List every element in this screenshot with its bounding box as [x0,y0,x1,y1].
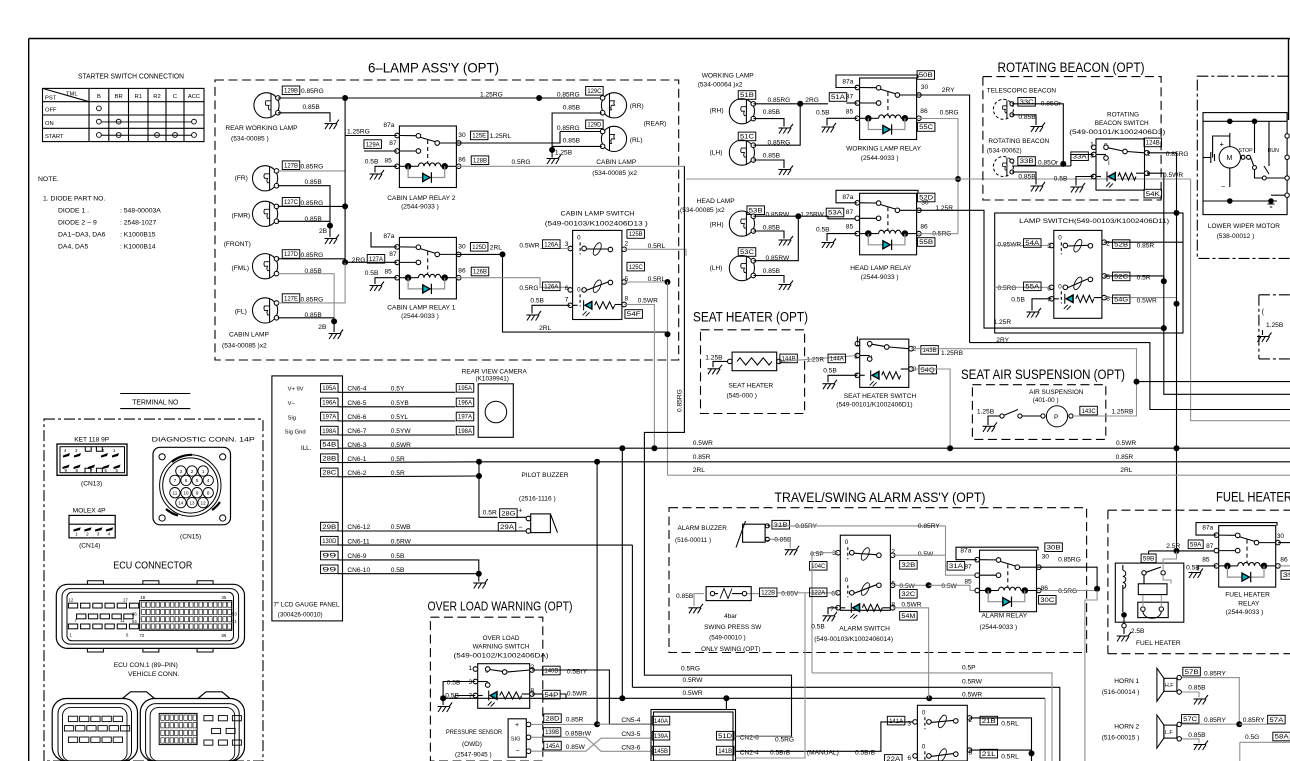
svg-text:ACC: ACC [188,94,200,100]
wire head RH 0.85B + ground [754,225,785,239]
svg-text:87a: 87a [842,194,853,201]
svg-text:57A: 57A [1269,718,1283,724]
wire fragment 1.25B [1262,330,1264,335]
label box 30C [1039,596,1057,605]
table: STARTER SWITCH CONNECTION grid [43,88,205,141]
svg-text:FUEL HEATER: FUEL HEATER [1216,490,1290,505]
svg-text:0.5B: 0.5B [811,623,825,630]
label CN2-4 0.5BrB [740,750,791,757]
svg-text:36: 36 [132,611,137,616]
horn 2 symbol [1157,715,1182,748]
svg-text:125C: 125C [629,265,644,271]
ground cabin switch [527,311,542,321]
svg-text:(2547-9045 ): (2547-9045 ) [455,752,492,759]
junction node bus 0.5WR seat [947,445,953,451]
row CN6-2 0.5R: label box 28C [321,468,339,477]
ground relay2 85 [370,170,385,180]
svg-text:87: 87 [1206,543,1214,550]
svg-text:55B: 55B [919,240,933,246]
wire 0.85RG to RR lamp [539,97,601,99]
wire 0.85B RR lamp [552,104,602,150]
svg-text:127C: 127C [284,200,299,206]
label box 54Q [919,365,937,374]
svg-text:(534-00085 )x2: (534-00085 )x2 [680,207,725,214]
svg-text:86: 86 [458,156,466,163]
label box 28D [544,714,562,723]
wire fuel relay 85 0.5B + ground [1186,565,1216,572]
junction node 2B cabin [331,318,337,324]
svg-text:0.85B: 0.85B [563,104,581,111]
svg-text:0.85B: 0.85B [303,104,321,111]
svg-text:DA4, DA5: DA4, DA5 [58,244,88,251]
label ALARM RELAY [980,612,1028,631]
svg-text:126A: 126A [544,242,558,248]
relay: ALARM RELAY [975,550,1041,612]
svg-text:54A: 54A [1025,241,1039,247]
label TERMINAL NO [120,394,190,409]
svg-text:87a: 87a [383,233,394,240]
wire gray bus y=179 [686,178,1191,180]
wire gray horiz into 2RL node [503,331,668,333]
wire horn2 0.85B + ground [1182,732,1206,743]
wire seat sw pin2 1.25RB [911,349,1136,382]
svg-text:0: 0 [922,743,926,750]
lamp switch section 2 [1058,276,1092,304]
svg-text:0.5P: 0.5P [962,664,976,671]
svg-text:(534-00085 )x2: (534-00085 )x2 [592,170,637,177]
svg-text:32C: 32C [901,592,916,598]
svg-text:2RL: 2RL [539,325,551,332]
svg-text:0.5RG: 0.5RG [681,665,700,672]
row CN6-11 0.5RW: label box 130D [321,536,339,545]
label box 128B [471,156,489,165]
svg-text:145B: 145B [654,749,668,755]
wire alarm relay 86 0.5RG [1037,588,1097,595]
lower wiper motor inner box [1203,113,1287,215]
row CN6-9 text [347,553,405,560]
alarm switch section 1 [845,539,881,561]
wire gray bus vertical to 420.7 [1191,179,1290,421]
ground horn2 [1194,741,1209,751]
svg-text:0: 0 [1058,234,1062,241]
svg-text:0.85B: 0.85B [676,593,694,600]
svg-text:0.5RG: 0.5RG [1058,588,1077,595]
svg-text:SEAT HEATER: SEAT HEATER [728,382,773,389]
wire alarm sw pin3 0.5P [810,551,838,558]
svg-text:(K1039941): (K1039941) [476,375,509,382]
cabin switch lamp row LED + resistor [573,300,622,316]
svg-text:1.25RB: 1.25RB [941,350,964,357]
wire overload 0.5B pin7 [445,693,475,700]
buzzer symbol [526,514,557,533]
svg-text:10: 10 [183,491,189,496]
label ECU CON.1 (89-PIN) VEHICLE CONN. [114,662,180,678]
bus wire 0.5WR overload row [443,697,929,699]
label ROTATING BEACON SWITCH [1069,111,1165,136]
wire sensor SIG row with crossover [531,737,651,751]
svg-text:129A: 129A [366,142,380,148]
ground seat heater switch [823,380,838,390]
alarm switch pins [836,550,895,610]
wire relay2 86 0.5RG [456,159,684,166]
row CN6-2 text [347,470,405,477]
table header text PST/TML [45,92,78,102]
label FUEL HEATER RELAY [1225,592,1270,617]
svg-text:CN6-12: CN6-12 [347,524,370,531]
svg-text:1: 1 [469,665,473,672]
svg-text:0.85R: 0.85R [566,717,584,724]
label PILOT BUZZER [519,472,569,503]
svg-text:(CN13): (CN13) [81,481,102,488]
overload switch pins [473,667,534,698]
lamp: head lamp LH [729,256,755,281]
head relay pin labels [842,194,928,231]
relay: WORKING LAMP RELAY [855,78,921,140]
wire beacon sw pin2 0.85RG [1147,151,1188,213]
label box 54G [1112,295,1130,304]
svg-text:50B: 50B [919,73,933,79]
wire 0.5P vertical [811,553,813,673]
svg-text:59A: 59A [1190,543,1202,549]
overload switch pin numbers [469,664,535,700]
label box 53B [747,206,765,215]
svg-text:85: 85 [846,108,854,115]
svg-text:99: 99 [322,568,337,574]
label box 21B [980,716,998,725]
label box 127E [282,294,300,303]
svg-text:(2516-1116 ): (2516-1116 ) [519,496,556,503]
wire relay2 85 0.5B to ground [365,158,397,172]
junction node 2B front [327,223,333,229]
svg-text:127B: 127B [284,163,298,169]
svg-text:FUEL HEATER: FUEL HEATER [1136,640,1181,647]
label box 57C [1181,715,1199,724]
svg-text:CN6-4: CN6-4 [347,386,366,393]
svg-text:1.25RG: 1.25RG [480,91,503,98]
ground working RH [779,124,794,134]
svg-text:ON: ON [45,121,54,127]
junction node 1.25RB [1134,379,1140,385]
svg-text:51D: 51D [718,734,733,740]
svg-text:86: 86 [920,223,928,230]
right edge fragment dashed box [1259,295,1290,359]
wire 0.85RY vertical to relay 87 [946,526,978,575]
label box 21L [980,749,998,758]
svg-text:1. DIODE PART NO.: 1. DIODE PART NO. [43,196,105,203]
wire 0.5G [1240,742,1290,761]
junction node 0.5W [926,582,932,588]
wire FMR lamp to bus [278,206,345,221]
wire 0.5RG row [644,674,791,676]
wire head relay 85 0.5B [816,227,857,242]
svg-text:0.85RG: 0.85RG [301,296,324,303]
svg-text:7: 7 [1090,175,1094,182]
svg-text:30: 30 [921,84,929,91]
wire head RH 0.85RW [754,212,799,219]
svg-text:CABIN LAMP RELAY 2: CABIN LAMP RELAY 2 [387,195,455,202]
svg-text:12: 12 [69,598,74,603]
svg-text:52C: 52C [1114,275,1129,281]
svg-text:0.85BrW: 0.85BrW [565,731,591,738]
svg-text:1: 1 [202,469,205,474]
svg-text:126A: 126A [544,285,558,291]
svg-text:21B: 21B [982,719,996,725]
svg-text:: 548-00003A: : 548-00003A [120,207,161,214]
junction node 0.5WR x622 low [619,695,625,701]
svg-text:197A: 197A [322,415,336,421]
svg-text:(RH): (RH) [710,107,724,114]
svg-text:30: 30 [458,243,466,250]
ground air suspension [983,422,998,432]
svg-text:0.5BrB: 0.5BrB [770,750,791,757]
svg-text:(REAR): (REAR) [644,120,667,127]
svg-text:1.25B: 1.25B [705,355,723,362]
svg-text:32B: 32B [901,563,915,569]
svg-text:8: 8 [625,296,629,303]
wire 1.25B seat heater + ground [705,355,727,368]
ground telescopic [1031,123,1046,133]
lamp switch outer box [995,213,1183,333]
svg-text:14: 14 [178,500,184,505]
svg-text:(549-00010 ): (549-00010 ) [709,634,746,641]
wire sensor minus row with crossover [531,738,651,751]
svg-text:2B: 2B [318,324,327,331]
svg-text:0.85B: 0.85B [763,109,781,116]
svg-text:0.85B: 0.85B [774,537,792,544]
svg-text:141B: 141B [718,749,732,755]
svg-text:3: 3 [97,531,100,536]
row CN6-9 0.5B: label box 99 [321,551,339,560]
ground rotating beacon [1031,182,1046,192]
wire lamp sw pin7 0.5B + ground [1011,297,1051,311]
svg-text:55C: 55C [919,125,934,131]
lamp: FR [253,166,279,191]
ground swing press [689,604,704,614]
travel switch section 1 [922,709,958,729]
svg-text:85: 85 [846,224,854,231]
junction node 1.25R [1161,325,1167,331]
wire lamp sw pin3 0.85WR [995,242,1052,249]
svg-text:1.25R: 1.25R [994,319,1012,326]
svg-text:31A: 31A [949,564,963,570]
svg-text:7" LCD GAUGE PANEL: 7" LCD GAUGE PANEL [274,601,340,608]
wire 1.25B air susp + ground [977,408,1000,425]
svg-text:54: 54 [132,619,137,624]
svg-text:SEAT HEATER (OPT): SEAT HEATER (OPT) [693,310,808,325]
svg-text:0.5WR: 0.5WR [693,440,713,447]
svg-text:35: 35 [222,595,227,600]
svg-text:3: 3 [180,469,183,474]
svg-text:1: 1 [75,531,78,536]
svg-text:ONLY SWING (OPT): ONLY SWING (OPT) [701,646,760,653]
ground front lamps [325,235,340,245]
svg-text:5: 5 [891,580,895,587]
svg-text:7: 7 [854,373,858,380]
wire 0.5RW long row [632,687,1059,761]
svg-text:V−: V− [288,401,296,407]
svg-text:0.5R: 0.5R [483,510,497,517]
svg-text:0.85RY: 0.85RY [1204,717,1226,724]
svg-text:DIAGNOSTIC CONN. 14P: DIAGNOSTIC CONN. 14P [152,436,256,443]
svg-text:(538-00012 ): (538-00012 ) [1217,233,1255,240]
svg-text:18: 18 [140,595,145,600]
seat heater switch pin1 stub [856,337,858,342]
svg-text:52D: 52D [919,196,934,202]
svg-text:7: 7 [1047,297,1051,304]
wire alarm sw pin5 0.5W [893,583,929,590]
label box 54F [625,310,643,319]
svg-text:30: 30 [1042,553,1050,560]
svg-text:L.F: L.F [1165,730,1173,736]
svg-text:7: 7 [830,606,834,613]
svg-text:0.85RG: 0.85RG [557,125,580,132]
svg-text:0.85RW: 0.85RW [766,212,790,219]
wire rotating beacon 0.85B + ground [1012,172,1036,185]
wire 2B stub [329,226,331,237]
svg-text:CABIN LAMP SWITCH: CABIN LAMP SWITCH [561,211,635,218]
svg-text:SIG: SIG [511,737,521,743]
wire head relay 86 0.5RG [917,230,958,237]
svg-text:(LH): (LH) [710,150,723,157]
svg-text:85: 85 [1202,557,1210,564]
svg-text:(534-00085 ): (534-00085 ) [231,136,269,143]
wire alarm buzzer 0.85B + ground [770,537,792,549]
svg-text:126B: 126B [473,270,487,276]
svg-text:CN6-5: CN6-5 [347,400,366,407]
svg-text:128B: 128B [473,158,487,164]
row CN6-7 0.5YW: label box 198A [321,426,339,435]
svg-text:54G: 54G [1114,298,1128,304]
seat heater resistor element [728,352,782,371]
svg-text:0.5YL: 0.5YL [391,414,409,421]
label ROTATING BEACON lamp [987,138,1050,155]
wire travel down [1031,753,1033,761]
svg-text:87a: 87a [383,122,394,129]
connector ECU main [56,581,244,652]
table row labels OFF/ON/START [45,108,64,141]
svg-text:+: + [518,507,522,514]
svg-text:0.5RG: 0.5RG [512,159,531,166]
label box 30B [1045,543,1063,552]
wire alarm relay 30 0.85RG [1037,556,1097,588]
svg-text:39: 39 [1283,573,1290,579]
wire head relay 87a loop [836,190,918,203]
svg-text:86: 86 [920,108,928,115]
alarm switch lamp row [840,603,890,619]
svg-text:+: + [1220,140,1225,149]
svg-text:130D: 130D [322,539,337,545]
wire 0.5W to relay 85 [929,585,978,590]
lamp switch pin numbers [1047,240,1110,303]
seat heater switch pin numbers [854,340,916,380]
label CABIN LAMP RELAY 2 [387,195,455,211]
junction node beacon 0.85RG to box [1174,210,1180,216]
junction node 54G 0.5WR [1174,301,1180,307]
wiper motor symbol [1203,119,1289,208]
alarm buzzer plus minus [766,523,770,544]
wire CN2-4 manual row [736,722,916,751]
svg-text:0: 0 [577,286,581,293]
junction node travel 0.5RL [1029,750,1035,756]
svg-text:0.85RG: 0.85RG [301,163,324,170]
svg-text:72: 72 [140,633,145,638]
svg-text:1.25RG: 1.25RG [347,128,370,135]
junction node bus 0.5WR x=622 [619,445,625,451]
row CN6-5 0.5YB: label box 196A [321,398,339,407]
wire auto vertical gray [736,593,806,758]
bus wire 0.85R y=461.8 [480,461,1290,463]
svg-text:8: 8 [1147,171,1151,178]
svg-text:197A: 197A [458,415,472,421]
svg-text:3: 3 [1090,152,1094,159]
working relay pin labels [842,79,928,116]
svg-text:(RH): (RH) [710,222,724,229]
wire 1.25RG top bus [345,97,539,99]
wire FL lamp to bus [278,262,345,318]
lamp switch lamp row [1054,294,1102,310]
wire head LH 0.85RW [754,216,799,262]
label box 51B [738,91,756,100]
gauge panel signal names [285,386,312,452]
svg-text:3: 3 [854,353,858,360]
svg-text:2.5B: 2.5B [1131,628,1145,635]
label box 126A lower [543,282,561,291]
relay: CABIN LAMP RELAY 1 [395,237,461,299]
svg-text:3: 3 [1047,243,1051,250]
svg-text:0.5WR: 0.5WR [683,690,703,697]
svg-text:0.5B: 0.5B [447,680,461,687]
table contact circles [97,106,197,137]
switch: travel alarm switch box [917,705,967,761]
relay: FUEL HEATER RELAY [1214,526,1280,588]
switch: LAMP SWITCH box [1054,230,1102,318]
junction node CN6-1 [476,459,482,465]
svg-text:CN2-6: CN2-6 [740,735,759,742]
svg-text:198A: 198A [322,429,336,435]
svg-text:22A: 22A [886,757,900,761]
label box 33B [1018,157,1036,166]
row CN6-6 text [347,414,408,421]
lamp: working lamp RH [729,99,755,124]
svg-text:139B: 139B [545,730,559,736]
air suspension switch contacts [1000,410,1041,419]
svg-text:54F: 54F [627,312,641,318]
svg-text:(2544-9033 ): (2544-9033 ) [401,313,439,320]
label box 59A [1188,540,1203,549]
wire working LH 0.85B + ground [754,153,785,168]
label box 145A [544,741,562,750]
svg-text:0.85B: 0.85B [763,153,781,160]
wire buzzer feed vertical [478,462,480,476]
connector ECU second [52,692,244,761]
svg-text:BEACON SWITCH: BEACON SWITCH [1095,120,1149,127]
svg-text:P: P [1054,414,1058,421]
wire alarm sw pin7 0.5B + ground [811,608,838,631]
label box 33C [1018,98,1036,107]
svg-text:28B: 28B [322,456,336,462]
svg-text:6–LAMP ASS'Y (OPT): 6–LAMP ASS'Y (OPT) [368,60,499,76]
svg-text:5: 5 [196,478,199,483]
svg-text:59B: 59B [1143,557,1155,563]
svg-text:0: 0 [845,577,849,584]
label box 125E [470,131,488,140]
svg-text:0.5WR: 0.5WR [1116,440,1136,447]
svg-text:0.5B: 0.5B [391,567,405,574]
label REAR WORKING LAMP [225,125,298,143]
svg-text:29B: 29B [322,525,336,531]
svg-text:8: 8 [207,491,210,496]
svg-text:(CN15): (CN15) [180,534,201,541]
